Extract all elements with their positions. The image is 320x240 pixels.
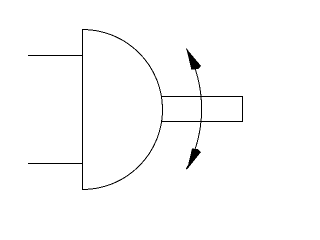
wire: lower left port line [28, 163, 83, 165]
semi-rotary actuator body (D-shaped semicircle) [83, 30, 163, 190]
output shaft rectangle [162, 97, 243, 122]
rotation arrowhead (lower) [187, 149, 201, 170]
rotation arrowhead (upper) [186, 48, 201, 69]
wire: upper left port line [28, 55, 83, 57]
rotation arrow arc [186, 49, 201, 170]
